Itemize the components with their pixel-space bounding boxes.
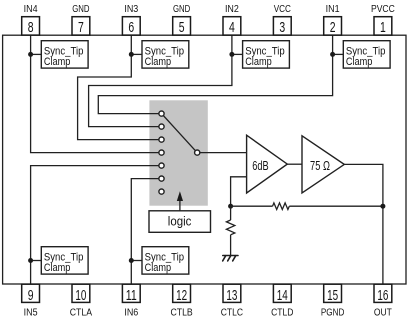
stub to clamp U1 (31, 53, 42, 55)
wire IN4: pin8 to switch input 4 (31, 35, 159, 152)
svg-text:Clamp: Clamp (145, 262, 172, 274)
sync tip clamp U1 (41, 41, 88, 68)
op-amp A2 75 ohm driver (302, 136, 344, 193)
IC body outline (3, 35, 406, 284)
svg-text:IN3: IN3 (124, 4, 138, 15)
svg-text:5: 5 (179, 20, 185, 36)
wire IN6: pin11 to switch input 6 (131, 179, 159, 284)
pin 11 (122, 284, 140, 304)
stub to clamp U4 (333, 53, 344, 55)
pin 8 (22, 17, 40, 36)
op-amp A1 6dB (247, 135, 288, 193)
wire IN5: pin9 to switch input 5 (31, 166, 159, 284)
svg-text:CTLC: CTLC (221, 307, 243, 318)
svg-text:VCC: VCC (274, 4, 291, 15)
pin 14 (273, 284, 291, 304)
node feedback (228, 204, 233, 209)
svg-text:9: 9 (28, 288, 34, 304)
sync tip clamp U2 (142, 41, 189, 68)
switch input contact 5 (159, 163, 164, 168)
pin 7 (72, 17, 90, 36)
pin 10 (72, 284, 90, 304)
svg-text:10: 10 (75, 288, 86, 304)
wire resistor to ground (230, 235, 232, 256)
pin 3 (273, 17, 291, 36)
svg-text:12: 12 (176, 288, 187, 304)
svg-text:Clamp: Clamp (145, 56, 172, 68)
wire feedback tap from A1 inverting input (231, 177, 247, 206)
stub to clamp U5 (31, 260, 42, 262)
sync tip clamp U6 (142, 247, 189, 274)
wire output to pin16 (344, 164, 383, 284)
resistor R2 (226, 220, 234, 235)
svg-text:IN6: IN6 (124, 307, 138, 318)
pin 1 (374, 17, 392, 36)
junction dot IN2 (229, 52, 234, 57)
logic control arrow (177, 191, 183, 211)
junction dot IN4 (28, 52, 33, 57)
wire feedback left segment (231, 205, 273, 207)
svg-text:75 Ω: 75 Ω (310, 159, 330, 173)
wire IN3: pin6 to switch input 3 (78, 35, 159, 139)
svg-text:CTLA: CTLA (70, 307, 93, 318)
svg-text:11: 11 (126, 288, 137, 304)
svg-text:OUT: OUT (374, 307, 392, 318)
svg-text:16: 16 (377, 288, 388, 304)
svg-text:IN2: IN2 (225, 4, 239, 15)
sync tip clamp U3 (243, 41, 290, 68)
svg-text:3: 3 (279, 20, 285, 36)
switch block shaded area (149, 100, 207, 205)
switch arm (163, 116, 195, 151)
resistor R1 feedback (273, 203, 290, 210)
wire feedback right segment (289, 205, 383, 207)
sync tip clamp U5 (41, 247, 88, 274)
svg-text:8: 8 (28, 20, 34, 36)
ground (223, 256, 238, 261)
switch input contact 2 (159, 124, 164, 129)
junction dot output (380, 204, 385, 209)
switch input contact 4 (159, 150, 164, 155)
junction dot IN1 (330, 52, 335, 57)
svg-text:2: 2 (330, 20, 336, 36)
wire to resistor R2 (230, 206, 232, 220)
logic block (149, 211, 211, 233)
pin 15 (324, 284, 342, 304)
svg-text:13: 13 (226, 288, 237, 304)
switch input contact 3 (159, 137, 164, 142)
svg-text:PGND: PGND (321, 307, 345, 318)
junction dot IN3 (129, 52, 134, 57)
svg-text:logic: logic (168, 215, 192, 229)
svg-text:PVCC: PVCC (371, 4, 395, 15)
svg-text:1: 1 (380, 20, 386, 36)
switch input contact 1 (159, 111, 164, 116)
wire IN1: pin2 to switch input 1 (98, 35, 332, 113)
pin 13 (223, 284, 241, 304)
wire A1 to A2 (287, 163, 302, 165)
svg-text:15: 15 (327, 288, 338, 304)
svg-text:Clamp: Clamp (346, 56, 373, 68)
switch input contact 7 unused (159, 189, 164, 194)
svg-text:IN4: IN4 (24, 4, 38, 15)
junction dot IN5 (28, 258, 33, 263)
svg-text:7: 7 (78, 20, 84, 36)
stub to clamp U2 (131, 53, 142, 55)
svg-text:4: 4 (229, 20, 235, 36)
svg-text:GND: GND (173, 4, 190, 15)
pin 12 (173, 284, 191, 304)
pin 4 (223, 17, 241, 36)
pin 9 (22, 284, 40, 304)
svg-text:CTLB: CTLB (170, 307, 193, 318)
pin 2 (324, 17, 342, 36)
svg-text:CTLD: CTLD (271, 307, 293, 318)
svg-text:Clamp: Clamp (245, 56, 272, 68)
stub to clamp U3 (232, 53, 243, 55)
svg-text:GND: GND (72, 4, 89, 15)
svg-text:Clamp: Clamp (44, 56, 71, 68)
junction dot IN6 (129, 258, 134, 263)
pin 16 (374, 284, 392, 304)
pin 6 (122, 17, 140, 36)
switch common contact (195, 150, 200, 155)
wire common to amp A1 (200, 152, 247, 154)
pin 5 (173, 17, 191, 36)
stub to clamp U6 (131, 260, 142, 262)
wire IN2: pin4 to switch input 2 (89, 35, 232, 126)
svg-text:6dB: 6dB (252, 159, 268, 173)
svg-text:IN1: IN1 (326, 4, 340, 15)
svg-text:Clamp: Clamp (44, 262, 71, 274)
switch input contact 6 (159, 176, 164, 181)
sync tip clamp U4 (343, 41, 390, 68)
svg-text:14: 14 (277, 288, 288, 304)
svg-text:6: 6 (128, 20, 134, 36)
svg-text:IN5: IN5 (24, 307, 38, 318)
